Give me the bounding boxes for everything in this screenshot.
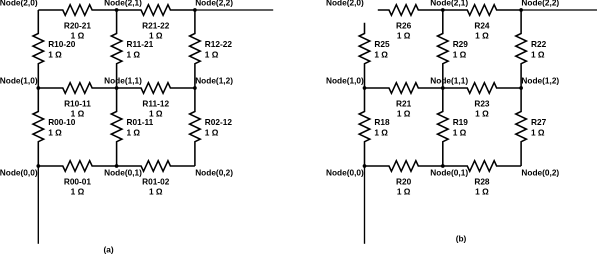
svg-text:1 Ω: 1 Ω xyxy=(149,187,163,197)
node Node(0,0) junction dot (b) xyxy=(363,164,367,168)
svg-text:R19: R19 xyxy=(453,117,469,127)
resistor R25 between Node(2,0) and Node(1,0) xyxy=(359,23,370,88)
svg-text:1 Ω: 1 Ω xyxy=(475,187,489,197)
svg-text:Node(0,1): Node(0,1) xyxy=(430,168,468,178)
svg-text:R10-20: R10-20 xyxy=(48,39,76,49)
resistor R10-20 between Node(2,0) and Node(1,0) xyxy=(33,10,44,88)
svg-text:Node(2,1): Node(2,1) xyxy=(104,0,142,8)
svg-text:1 Ω: 1 Ω xyxy=(48,49,62,59)
svg-text:Node(1,0): Node(1,0) xyxy=(0,75,38,85)
resistor R23 between Node(1,1) and Node(1,2) xyxy=(443,83,521,94)
node Node(2,1) junction dot (b) xyxy=(441,8,445,12)
svg-text:Node(1,2): Node(1,2) xyxy=(195,75,233,85)
svg-text:Node(0,0): Node(0,0) xyxy=(0,168,38,178)
svg-text:R18: R18 xyxy=(374,117,390,127)
svg-text:1 Ω: 1 Ω xyxy=(127,49,141,59)
svg-text:R21: R21 xyxy=(396,98,412,108)
svg-text:1 Ω: 1 Ω xyxy=(397,31,411,41)
svg-text:Node(0,2): Node(0,2) xyxy=(521,168,559,178)
svg-text:1 Ω: 1 Ω xyxy=(453,49,467,59)
resistor R29 between Node(2,1) and Node(1,1) xyxy=(438,10,449,88)
svg-text:R10-11: R10-11 xyxy=(64,98,91,108)
resistor R11-21 between Node(2,1) and Node(1,1) xyxy=(111,10,122,88)
resistor R18 between Node(1,0) and Node(0,0) xyxy=(359,88,370,166)
svg-text:1 Ω: 1 Ω xyxy=(531,49,545,59)
resistor R24 between Node(2,1) and Node(2,2) xyxy=(443,5,521,16)
svg-text:1 Ω: 1 Ω xyxy=(475,31,489,41)
svg-text:1 Ω: 1 Ω xyxy=(71,187,85,197)
svg-text:R24: R24 xyxy=(474,20,490,30)
svg-text:R01-11: R01-11 xyxy=(127,117,154,127)
wire top-row extension right of Node(2,2) xyxy=(521,9,597,11)
resistor R10-11 between Node(1,0) and Node(1,1) xyxy=(38,83,116,94)
node Node(1,2) junction dot (a) xyxy=(193,86,197,90)
svg-text:Node(0,1): Node(0,1) xyxy=(104,168,142,178)
node Node(1,2) junction dot (b) xyxy=(519,86,523,90)
node Node(0,0) junction dot (a) xyxy=(36,164,40,168)
svg-text:R27: R27 xyxy=(531,117,547,127)
resistor R21-22 between Node(2,1) and Node(2,2) xyxy=(117,5,195,16)
resistor R01-11 between Node(1,1) and Node(0,1) xyxy=(111,88,122,166)
svg-text:R21-22: R21-22 xyxy=(142,20,170,30)
svg-text:R29: R29 xyxy=(453,39,469,49)
svg-text:Node(2,0): Node(2,0) xyxy=(0,0,38,8)
svg-text:R28: R28 xyxy=(474,176,490,186)
resistor R01-02 between Node(0,1) and Node(0,2) xyxy=(117,161,195,172)
node Node(1,1) junction dot (b) xyxy=(441,86,445,90)
resistor R12-22 between Node(2,2) and Node(1,2) xyxy=(190,10,201,88)
resistor R21 between Node(1,0) and Node(1,1) xyxy=(365,83,443,94)
svg-text:1 Ω: 1 Ω xyxy=(374,49,388,59)
svg-text:1 Ω: 1 Ω xyxy=(374,127,388,137)
svg-text:(b): (b) xyxy=(456,234,467,244)
node Node(1,0) junction dot (a) xyxy=(36,86,40,90)
resistor R00-10 between Node(1,0) and Node(0,0) xyxy=(33,88,44,166)
svg-text:Node(0,2): Node(0,2) xyxy=(195,168,233,178)
resistor R28 between Node(0,1) and Node(0,2) xyxy=(443,161,521,172)
svg-text:1 Ω: 1 Ω xyxy=(531,127,545,137)
svg-text:1 Ω: 1 Ω xyxy=(475,109,489,119)
svg-text:Node(0,0): Node(0,0) xyxy=(326,168,364,178)
node Node(2,2) junction dot (a) xyxy=(193,8,197,12)
svg-text:R11-12: R11-12 xyxy=(142,98,169,108)
svg-text:(a): (a) xyxy=(104,245,114,255)
svg-text:Node(1,2): Node(1,2) xyxy=(521,75,559,85)
resistor R11-12 between Node(1,1) and Node(1,2) xyxy=(117,83,195,94)
svg-text:1 Ω: 1 Ω xyxy=(397,109,411,119)
node Node(1,0) junction dot (b) xyxy=(363,86,367,90)
svg-text:Node(2,0): Node(2,0) xyxy=(326,0,364,8)
svg-text:1 Ω: 1 Ω xyxy=(453,127,467,137)
svg-text:1 Ω: 1 Ω xyxy=(48,127,62,137)
node Node(1,1) junction dot (a) xyxy=(115,86,119,90)
svg-text:Node(2,2): Node(2,2) xyxy=(521,0,559,8)
resistor R20-21 between Node(2,0) and Node(2,1) xyxy=(38,5,116,16)
svg-text:R23: R23 xyxy=(474,98,490,108)
svg-text:Node(2,2): Node(2,2) xyxy=(195,0,233,8)
svg-text:Node(1,0): Node(1,0) xyxy=(326,75,364,85)
node Node(0,1) junction dot (a) xyxy=(115,164,119,168)
resistor R20 between Node(0,0) and Node(0,1) xyxy=(365,161,443,172)
svg-text:R01-02: R01-02 xyxy=(142,176,170,186)
node Node(2,2) junction dot (b) xyxy=(519,8,523,12)
resistor R00-01 between Node(0,0) and Node(0,1) xyxy=(38,161,116,172)
svg-text:1 Ω: 1 Ω xyxy=(205,127,219,137)
svg-text:1 Ω: 1 Ω xyxy=(397,187,411,197)
svg-text:R11-21: R11-21 xyxy=(127,39,154,49)
resistor R19 between Node(1,1) and Node(0,1) xyxy=(438,88,449,166)
svg-text:R02-12: R02-12 xyxy=(205,117,233,127)
svg-text:R26: R26 xyxy=(396,20,412,30)
node Node(2,1) junction dot (a) xyxy=(115,8,119,12)
svg-text:Node(2,1): Node(2,1) xyxy=(430,0,468,8)
svg-text:R00-10: R00-10 xyxy=(48,117,76,127)
svg-text:R25: R25 xyxy=(374,39,390,49)
svg-text:R00-01: R00-01 xyxy=(64,176,92,186)
resistor R27 between Node(1,2) and Node(0,2) xyxy=(516,88,527,166)
svg-text:Node(1,1): Node(1,1) xyxy=(430,75,468,85)
resistor R26 between Node(2,0) and Node(2,1), left lead open xyxy=(378,5,443,16)
svg-text:Node(1,1): Node(1,1) xyxy=(104,75,142,85)
svg-text:R12-22: R12-22 xyxy=(205,39,233,49)
svg-text:1 Ω: 1 Ω xyxy=(205,49,219,59)
svg-text:R20: R20 xyxy=(396,176,412,186)
resistor R22 between Node(2,2) and Node(1,2) xyxy=(516,10,527,88)
svg-text:R20-21: R20-21 xyxy=(64,20,92,30)
wire top-row extension right of Node(2,2) xyxy=(195,9,273,11)
svg-text:1 Ω: 1 Ω xyxy=(127,127,141,137)
resistor R02-12 between Node(1,2) and Node(0,2) xyxy=(190,88,201,166)
wire stub below Node(0,0) xyxy=(364,166,366,244)
wire stub below Node(0,0) xyxy=(37,166,39,244)
svg-text:R22: R22 xyxy=(531,39,547,49)
node Node(0,1) junction dot (b) xyxy=(441,164,445,168)
